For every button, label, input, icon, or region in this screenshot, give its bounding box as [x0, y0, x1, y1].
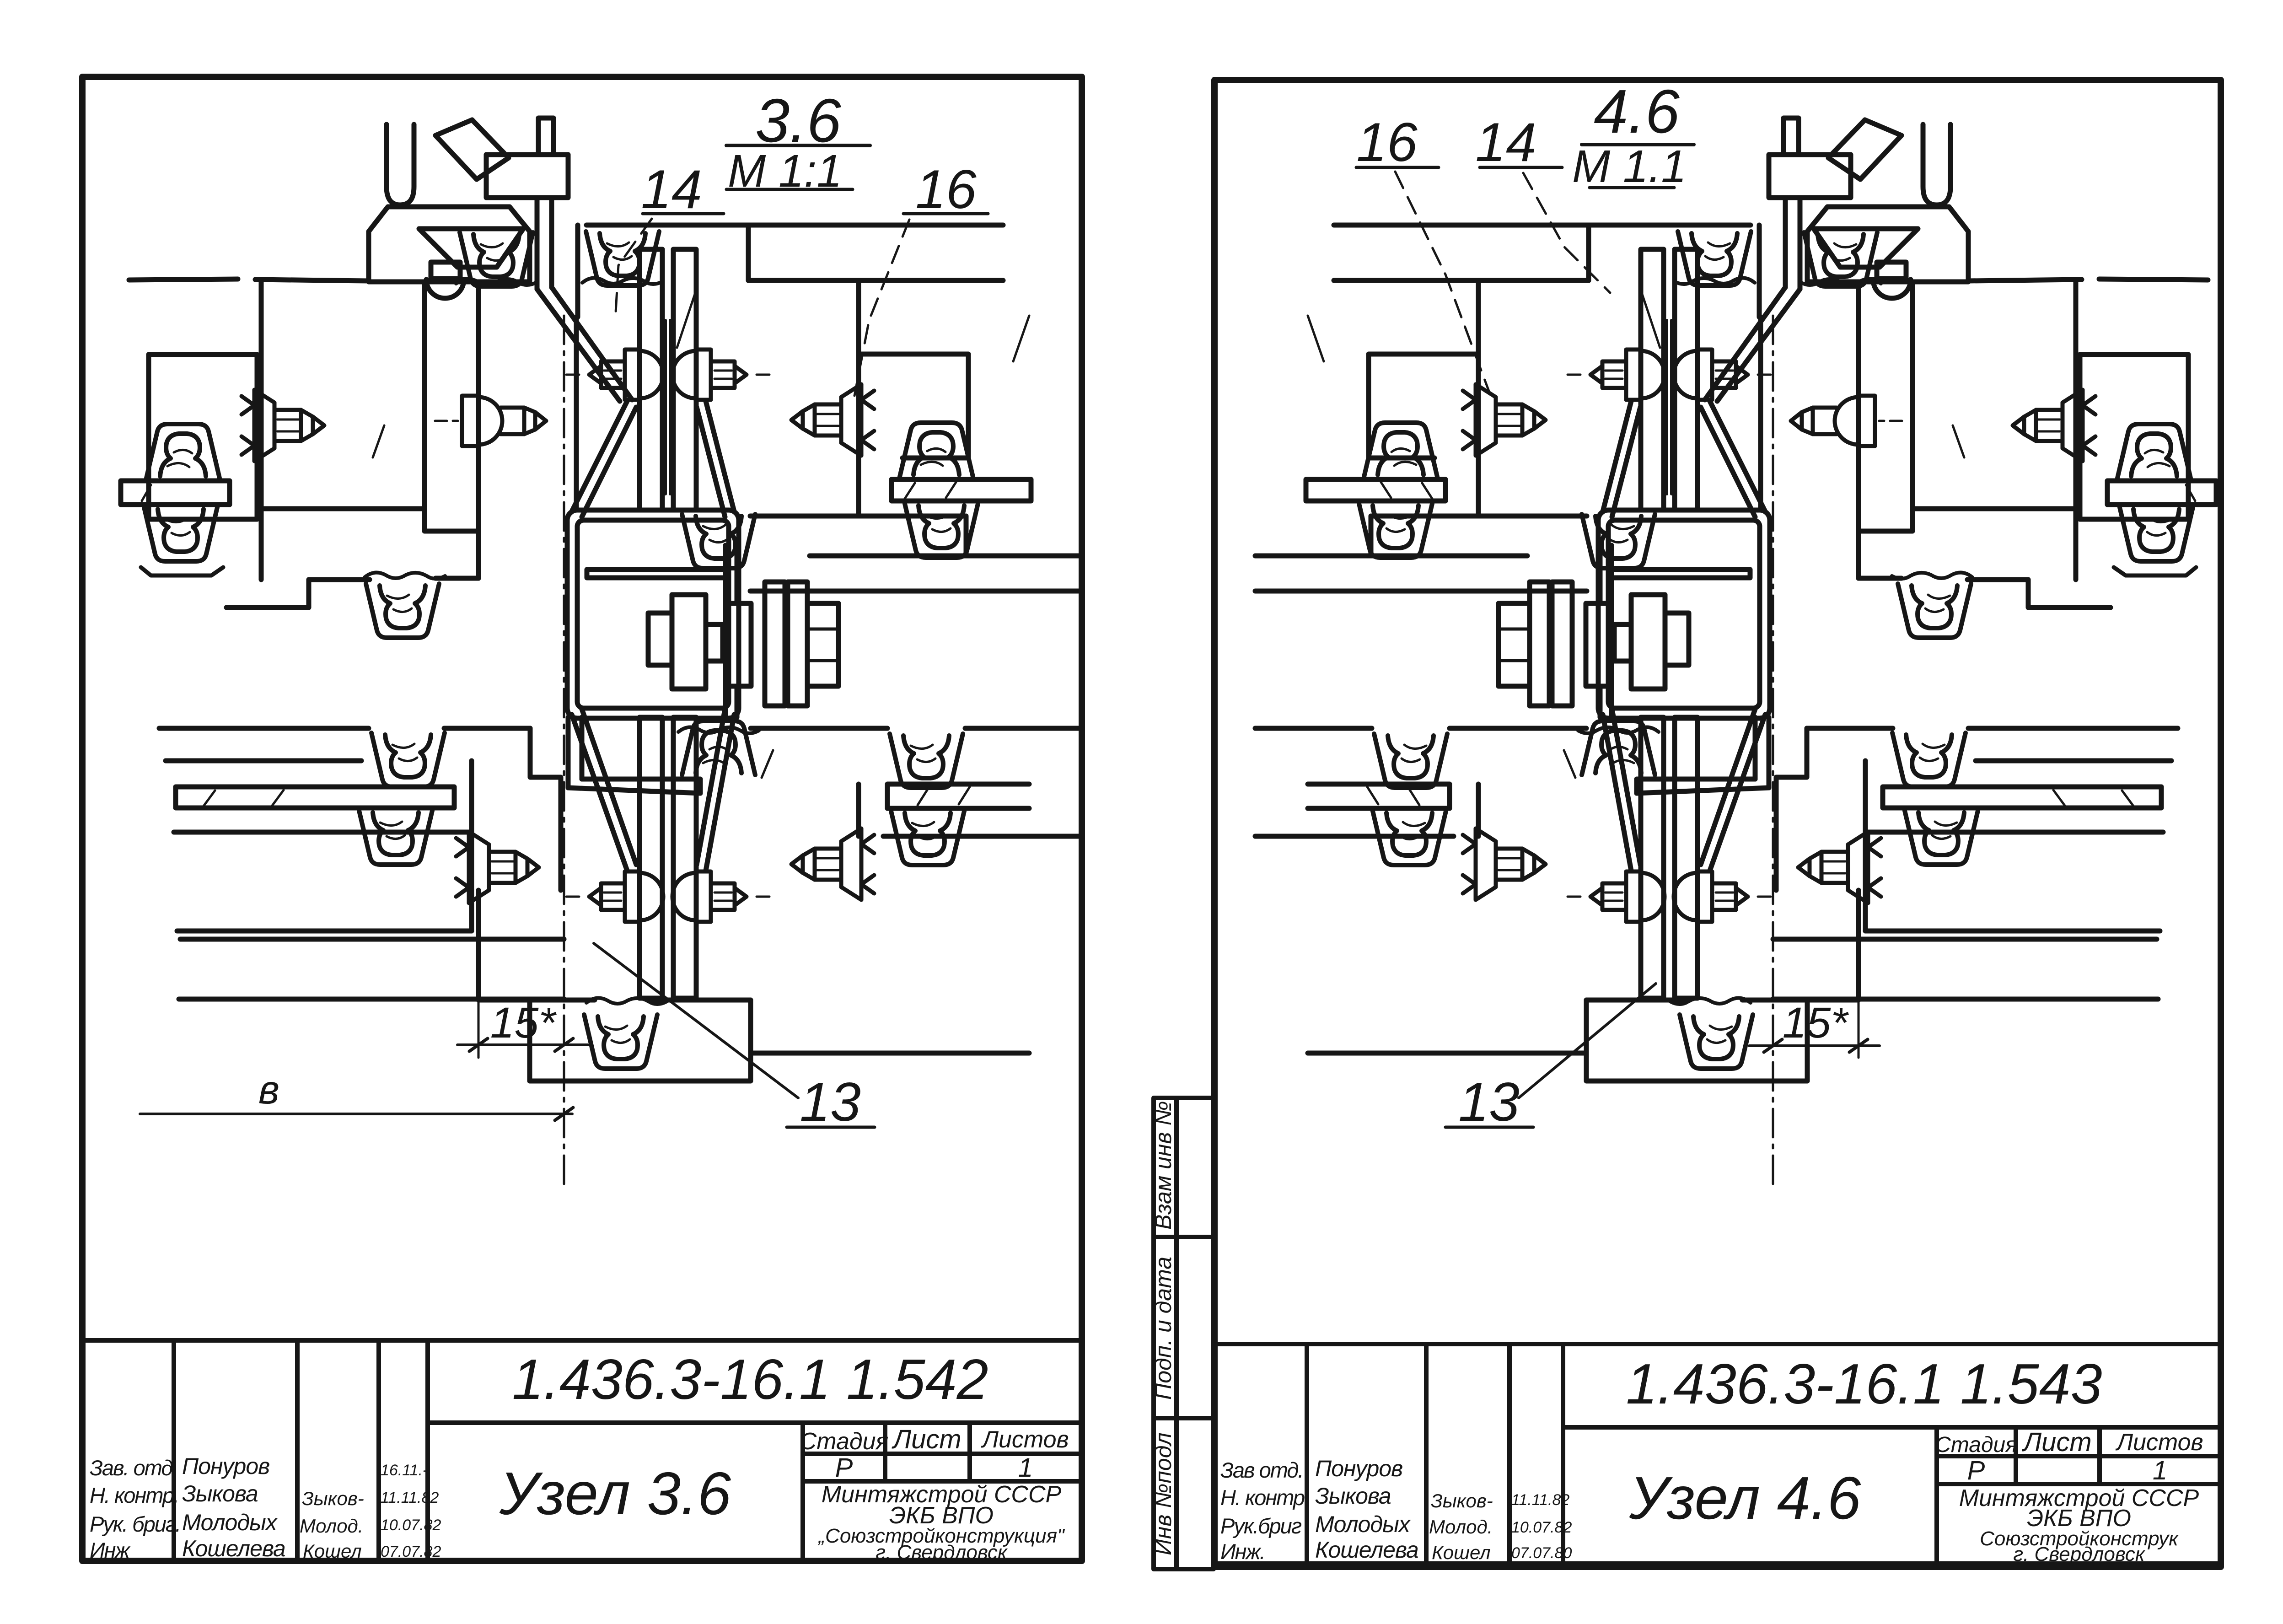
gusset plate b	[788, 582, 807, 706]
long line right mid	[750, 589, 1082, 594]
lower-left bottom line	[177, 929, 472, 934]
dim 15 line	[457, 1043, 588, 1046]
bolt cap plate	[648, 613, 672, 665]
svg-text:Зав. отд.: Зав. отд.	[90, 1456, 177, 1480]
upper bolt left	[566, 350, 663, 400]
svg-text:07.07.82: 07.07.82	[381, 1543, 441, 1560]
svg-text:Узел 3.6: Узел 3.6	[499, 1460, 731, 1527]
lower-centre anchor	[682, 721, 755, 775]
svg-text:Кошел: Кошел	[303, 1540, 362, 1562]
brace upper-right	[697, 401, 734, 517]
svg-text:Инв №подл: Инв №подл	[1150, 1432, 1176, 1555]
svg-text:1.436.3-16.1 1.543: 1.436.3-16.1 1.543	[1626, 1353, 2102, 1416]
column bolt with stud	[435, 396, 546, 446]
stamp table right	[1937, 1427, 2100, 1564]
lower-right panel second line	[883, 834, 1082, 839]
upper-left panel mid bottom	[257, 506, 424, 511]
svg-text:г. Свердловск: г. Свердловск	[876, 1541, 1008, 1564]
lifting loop	[387, 124, 414, 205]
joint centreline sheet2	[1772, 316, 1774, 1185]
svg-text:Листов: Листов	[981, 1426, 1069, 1453]
left embed plate strip	[121, 481, 230, 505]
bottom slab bottom line	[179, 997, 564, 1002]
strap frame inner	[577, 520, 729, 708]
leader 13 sheet2	[1519, 984, 1656, 1098]
lower bolt left	[566, 871, 663, 922]
upper bolt right	[672, 350, 769, 400]
weld over left-leg anchor	[365, 573, 445, 579]
sheet 2 border frame	[1214, 80, 2221, 1567]
svg-text:1.436.3-16.1 1.542: 1.436.3-16.1 1.542	[512, 1348, 988, 1411]
leader 16 sheet2	[1395, 172, 1489, 391]
svg-text:Рук.бриг: Рук.бриг	[1220, 1514, 1302, 1538]
svg-text:Инж.: Инж.	[1220, 1539, 1265, 1564]
left inventory strip	[1154, 1098, 1214, 1569]
title block top line	[82, 1338, 1082, 1343]
anchor under upper-right panel	[682, 514, 755, 568]
svg-text:Р: Р	[1967, 1456, 1985, 1485]
bottom slab top line	[180, 937, 564, 942]
inner strap top bar	[587, 570, 727, 578]
joint centreline	[563, 316, 565, 1185]
lower-left third line	[174, 830, 472, 835]
brace lower-left	[572, 709, 636, 871]
leader 16	[854, 220, 909, 396]
svg-text:16.11.-: 16.11.-	[381, 1462, 428, 1479]
inner strap bottom bar	[568, 779, 700, 793]
svg-text:Стадия: Стадия	[1935, 1433, 2017, 1457]
svg-text:11.11.82: 11.11.82	[1511, 1491, 1569, 1509]
brace upper-left	[572, 401, 636, 517]
sheet 2 texts	[1150, 77, 2203, 1565]
upper-right panel joint edge	[576, 225, 578, 510]
upper-right pocket wall	[746, 225, 751, 280]
right anchor below strip	[905, 504, 978, 558]
title block column lines	[1307, 1344, 1563, 1564]
hatch scratches	[142, 293, 1029, 806]
lower-left anchor lower	[359, 811, 432, 865]
upper-right inner leg	[856, 280, 861, 516]
hoist sling band	[435, 120, 509, 179]
stud on lower-right leg	[791, 828, 874, 900]
hoist cross bar	[486, 155, 568, 198]
stamp table right	[803, 1423, 970, 1561]
bottom gap face	[476, 890, 481, 999]
lower-right panel top edge	[751, 726, 1082, 731]
svg-text:Кошел: Кошел	[1432, 1542, 1491, 1563]
bottom line of sheet2 title block	[1214, 1561, 2221, 1566]
bolt washer plate	[725, 603, 751, 686]
right anchor above strip	[900, 423, 973, 477]
bottom centre surface	[478, 998, 751, 1003]
left anchor below strip	[144, 507, 217, 561]
svg-text:07.07.80: 07.07.80	[1511, 1544, 1572, 1562]
svg-text:Р: Р	[835, 1453, 853, 1483]
lower-left second line	[166, 758, 361, 764]
dim 15 line sheet2	[1749, 1044, 1880, 1047]
svg-text:Н. контр: Н. контр	[1220, 1485, 1305, 1510]
left gap face upper	[476, 283, 481, 578]
svg-text:Подп. и дата: Подп. и дата	[1150, 1257, 1176, 1400]
svg-text:10.07.82: 10.07.82	[1511, 1519, 1572, 1536]
strap right verticals	[725, 545, 737, 717]
svg-text:Листов: Листов	[2115, 1429, 2203, 1456]
strap frame outer	[567, 510, 739, 718]
hoist stub	[538, 118, 553, 155]
svg-text:Молод.: Молод.	[1429, 1516, 1493, 1538]
svg-text:Молодых: Молодых	[1315, 1511, 1411, 1537]
upper-left panel top edge	[129, 279, 369, 281]
hanger bar diagonal	[537, 287, 632, 401]
svg-text:16: 16	[915, 159, 977, 220]
svg-text:Понуров: Понуров	[182, 1453, 269, 1479]
bottom anchor	[584, 1015, 657, 1069]
lower-left anchor upper	[371, 733, 445, 787]
svg-text:10.07.82: 10.07.82	[381, 1516, 441, 1534]
svg-text:Зыкова: Зыкова	[182, 1481, 258, 1506]
dim 15 extension line sheet2	[1858, 1002, 1860, 1058]
svg-text:М 1.1: М 1.1	[1572, 141, 1687, 192]
right embed plate strip	[892, 479, 1031, 501]
lifting block trapezoid	[369, 207, 530, 282]
svg-text:Молодых: Молодых	[182, 1510, 278, 1535]
stud on small panel	[242, 390, 324, 461]
svg-text:1: 1	[1018, 1453, 1033, 1483]
block funnel recess	[419, 229, 523, 267]
stud on lower-left edge	[456, 832, 539, 903]
svg-text:Узел 4.6: Узел 4.6	[1629, 1464, 1861, 1532]
bolt block	[672, 595, 706, 689]
sheet 1 texts	[90, 86, 1069, 1564]
svg-text:Кошелева: Кошелева	[1315, 1537, 1418, 1563]
line under document number	[1563, 1425, 2221, 1430]
svg-text:13: 13	[1458, 1071, 1519, 1133]
joint plate 1 lower	[639, 717, 662, 998]
lower-right leg edge	[856, 784, 861, 836]
anchor under left leg	[366, 584, 439, 638]
gusset plate a	[765, 582, 785, 706]
svg-text:Лист: Лист	[891, 1425, 961, 1454]
svg-text:14: 14	[641, 159, 702, 220]
svg-text:Н. контр.: Н. контр.	[90, 1483, 178, 1507]
joint plate 2 lower	[673, 717, 696, 998]
svg-text:в: в	[258, 1067, 279, 1112]
svg-text:Стадия: Стадия	[800, 1428, 889, 1455]
block dome	[426, 280, 464, 298]
small wall panel left	[149, 355, 257, 519]
svg-text:г. Свердловск: г. Свердловск	[2013, 1543, 2145, 1565]
svg-text:11.11.82: 11.11.82	[381, 1489, 439, 1506]
lower-left embed strip long	[176, 787, 454, 808]
lower-right embed strip	[887, 784, 1029, 808]
hanger bar vertical	[537, 198, 552, 289]
lower bolt right	[672, 871, 769, 922]
svg-text:Инж: Инж	[90, 1538, 131, 1562]
line under document number	[428, 1420, 1082, 1425]
dim b tick	[555, 1108, 573, 1120]
left leg inner edge	[424, 283, 478, 531]
brace lower-right	[697, 709, 734, 871]
svg-text:Рук. бриг.: Рук. бриг.	[90, 1512, 180, 1536]
lower-left panel top edge	[159, 726, 530, 731]
svg-text:Зыков-: Зыков-	[302, 1488, 364, 1509]
lower-left right edge	[469, 761, 474, 931]
joint plate 1 upper	[639, 249, 662, 510]
dim 15 ticks	[469, 1038, 488, 1051]
weld over bottom anchor	[586, 998, 667, 1004]
dim 15 ticks sheet2	[1764, 1039, 1782, 1052]
svg-text:15*: 15*	[490, 999, 557, 1047]
svg-text:Понуров: Понуров	[1315, 1456, 1402, 1481]
weld under top centre anchor	[582, 278, 663, 284]
svg-text:1: 1	[2153, 1456, 2167, 1485]
anchor recess upper-right panel	[861, 354, 968, 458]
hex nut facets	[807, 629, 838, 661]
title block column lines	[174, 1340, 428, 1561]
joint plate 2 upper	[673, 249, 696, 510]
inner strap left drop	[568, 717, 582, 788]
left anchor above strip	[146, 424, 220, 478]
leader 14 sheet2	[1523, 173, 1610, 293]
bottom centre panel upper step	[530, 728, 561, 890]
bottom right line	[751, 1051, 1029, 1056]
svg-text:14: 14	[1475, 112, 1536, 173]
svg-text:Лист: Лист	[2021, 1427, 2091, 1457]
svg-text:Молод.: Молод.	[300, 1515, 363, 1537]
top centre anchor on plates	[586, 231, 659, 285]
weld under block anchor	[456, 279, 537, 285]
title block top line	[1214, 1342, 2221, 1346]
bolt neck	[706, 624, 723, 661]
sheet 1 border frame	[82, 77, 1082, 1561]
anchor in lifting block	[460, 232, 533, 286]
block neck	[431, 262, 460, 279]
lower-right anchor upper	[890, 734, 963, 788]
svg-text:Кошелева: Кошелева	[182, 1536, 285, 1561]
svg-text:13: 13	[800, 1071, 860, 1133]
gasket lines	[666, 320, 670, 494]
dim b line	[140, 1113, 572, 1115]
mirrored joint drawing	[1255, 118, 2216, 1081]
svg-text:4.6: 4.6	[1594, 77, 1680, 146]
svg-text:Зыкова: Зыкова	[1315, 1483, 1391, 1509]
pocket below left anchor pair	[141, 567, 223, 575]
upper-right panel top edge	[586, 223, 1003, 228]
dim 15 extension line	[478, 1002, 480, 1058]
leader 14	[615, 219, 652, 320]
svg-text:16: 16	[1356, 112, 1418, 173]
svg-text:Взам инв №: Взам инв №	[1150, 1101, 1176, 1230]
left leg bottom pocket	[226, 578, 478, 608]
svg-text:Зыков-: Зыков-	[1431, 1490, 1493, 1511]
svg-text:Зав отд.: Зав отд.	[1220, 1458, 1303, 1482]
upper-right panel bottom face	[748, 278, 1003, 283]
hex nut	[807, 603, 838, 686]
stud on upper-right leg	[791, 384, 874, 456]
leader 13	[594, 943, 798, 1098]
svg-text:15*: 15*	[1783, 999, 1849, 1047]
weld over lower-centre anchor	[678, 727, 759, 733]
upper-right underside	[576, 510, 1082, 556]
left leg left edge	[259, 281, 264, 580]
bottom foundation block	[530, 1000, 751, 1081]
lower-right anchor lower	[891, 811, 964, 865]
